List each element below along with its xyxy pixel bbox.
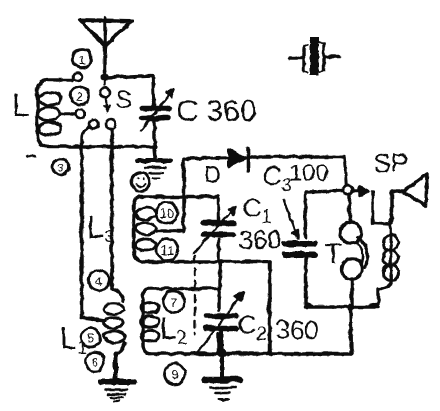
switch S upper contact bbox=[99, 87, 109, 97]
phones T band arcs bbox=[357, 237, 367, 266]
svg-text:9: 9 bbox=[170, 366, 177, 381]
label 7 bbox=[163, 291, 184, 312]
phones T lower bbox=[341, 258, 362, 279]
capacitor C1 arrow bbox=[193, 206, 236, 252]
label 9 circle bbox=[131, 172, 150, 191]
node rail corner junction bbox=[267, 350, 272, 355]
wire stray mark bbox=[26, 154, 34, 156]
label 6 bbox=[85, 352, 104, 371]
wire antenna down bbox=[102, 45, 106, 76]
label 2 bbox=[70, 86, 88, 104]
svg-text:C2: C2 bbox=[237, 309, 266, 343]
svg-text:360: 360 bbox=[238, 224, 281, 254]
ground under C2 bbox=[204, 379, 240, 400]
label 4 bbox=[88, 270, 109, 291]
pointer arrow to C3 bbox=[283, 199, 297, 238]
switch S blade bbox=[104, 98, 110, 111]
wire C2 top stub bbox=[217, 261, 221, 288]
output coil bbox=[370, 214, 398, 305]
node L3 tap junction bbox=[181, 228, 186, 233]
svg-text:C1: C1 bbox=[242, 192, 271, 226]
phones T upper bbox=[340, 222, 361, 243]
capacitor C1 plates bbox=[203, 223, 233, 234]
coil L box bbox=[37, 79, 153, 146]
wire C2 to ground bbox=[219, 330, 223, 376]
wire junction right branch bbox=[352, 186, 368, 195]
terminal circle 1 bbox=[73, 72, 81, 80]
node junction right bbox=[342, 184, 352, 194]
svg-text:T: T bbox=[324, 237, 341, 268]
svg-text:5: 5 bbox=[87, 331, 94, 345]
dashed gang line bbox=[193, 255, 195, 334]
terminal circle 2 bbox=[75, 109, 84, 118]
capacitor C360 arrow bbox=[140, 88, 174, 130]
svg-text:L1: L1 bbox=[59, 320, 86, 357]
wire switch down to L1 bbox=[109, 128, 113, 288]
switch S lower contact bbox=[105, 118, 115, 128]
node L box bottom / C360 ground junction bbox=[151, 143, 156, 148]
wire D line from corner bbox=[183, 157, 228, 196]
phones loop bottom wire bbox=[305, 304, 378, 308]
terminal circle tap to L1 bbox=[89, 119, 98, 128]
svg-text:C3: C3 bbox=[262, 160, 291, 194]
wire junction to C360 corner bbox=[106, 75, 153, 103]
antenna bbox=[79, 17, 131, 45]
wire tank bottom to rail bbox=[267, 261, 271, 352]
svg-text:L3: L3 bbox=[86, 209, 113, 246]
svg-text:L: L bbox=[11, 86, 29, 122]
ground under C360 bbox=[138, 160, 170, 177]
svg-text:3: 3 bbox=[57, 162, 63, 174]
bottom rail bbox=[150, 351, 351, 354]
label 10 bbox=[155, 201, 177, 223]
svg-text:10: 10 bbox=[159, 205, 173, 220]
wire phones bottom lead bbox=[349, 278, 353, 306]
wire junction left to C3 bbox=[305, 190, 342, 237]
label 9 (L2 bottom) bbox=[164, 363, 185, 384]
capacitor C360 plates bbox=[141, 103, 168, 146]
diode D bbox=[228, 147, 248, 170]
capacitor C2 arrow bbox=[196, 292, 243, 353]
node tank bottom junction bbox=[219, 259, 224, 264]
wire L box bottom to ground node bbox=[153, 146, 154, 157]
wire L1 to ground bbox=[113, 353, 118, 378]
coil L1 bbox=[103, 288, 125, 353]
capacitor C2 plates bbox=[205, 316, 236, 328]
coil L3 box bbox=[133, 196, 269, 261]
node C2 ground junction bbox=[216, 347, 226, 357]
svg-text:6: 6 bbox=[91, 355, 98, 369]
svg-text:1: 1 bbox=[77, 52, 84, 67]
svg-text:SP: SP bbox=[373, 147, 408, 177]
svg-text:D: D bbox=[203, 161, 220, 188]
svg-text:100: 100 bbox=[288, 159, 328, 186]
wire tap L3 bbox=[155, 196, 183, 230]
svg-text:7: 7 bbox=[169, 294, 176, 309]
terminal tap 2 lead bbox=[59, 111, 73, 115]
ground under L1 bbox=[100, 381, 133, 401]
wire tap down to L1 bbox=[81, 126, 104, 320]
node antenna junction bbox=[100, 73, 108, 81]
wire C3 down to bottom bbox=[305, 256, 311, 305]
coil L2 box bbox=[140, 288, 218, 353]
node phones bottom bbox=[347, 303, 354, 310]
svg-text:4: 4 bbox=[94, 273, 101, 288]
label 3 bbox=[52, 158, 68, 174]
svg-text:C 360: C 360 bbox=[176, 94, 256, 127]
svg-text:360: 360 bbox=[275, 314, 318, 344]
label 1 bbox=[72, 49, 91, 68]
label 5 bbox=[81, 328, 100, 347]
svg-text:11: 11 bbox=[160, 242, 174, 257]
capacitor C3 plates bbox=[284, 243, 314, 254]
svg-text:2: 2 bbox=[76, 89, 83, 103]
svg-text:L2: L2 bbox=[159, 310, 186, 347]
wire diode to right corner bbox=[249, 156, 346, 184]
crystal symbol top bbox=[289, 36, 338, 75]
wire phones top lead bbox=[347, 194, 351, 222]
label 11 bbox=[156, 238, 178, 260]
svg-text:S: S bbox=[115, 86, 131, 113]
wire to output coil bbox=[372, 191, 390, 223]
wire rail up to phones bottom bbox=[350, 306, 351, 353]
switch S arrow top bbox=[103, 79, 106, 84]
speaker SP bbox=[391, 173, 426, 222]
